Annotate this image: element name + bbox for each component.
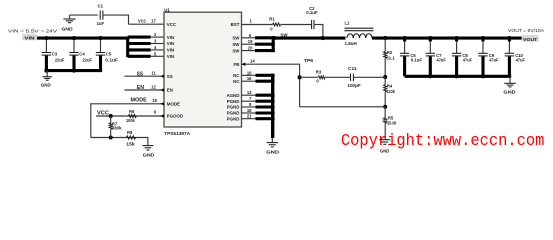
ground [266,138,279,155]
wire [384,58,386,77]
wire SW bus [273,37,345,40]
resistor R8 [126,130,135,146]
pin name PGOOD [167,114,183,119]
op-amp U1 IC body TPS51397A [164,7,242,136]
svg-text:R6: R6 [129,109,135,114]
pin name PGND [227,116,240,121]
wire VOUT bus [372,37,522,40]
svg-text:0.1uF: 0.1uF [105,58,118,63]
ground [41,71,52,88]
pin name VIN [167,48,174,53]
svg-text:VCC: VCC [138,19,147,24]
svg-text:15k: 15k [126,141,135,146]
wire pin 13 stub [256,94,275,97]
svg-text:47uF: 47uF [437,58,447,63]
pin number 1 [250,19,253,24]
wire [325,76,350,78]
svg-text:10: 10 [247,70,252,75]
svg-text:VIN: VIN [167,35,174,40]
pin name VIN [167,41,174,46]
wire [69,15,71,19]
pin name NC [233,73,240,78]
svg-text:U1: U1 [164,7,170,12]
pin number 12 [151,84,156,89]
svg-text:13: 13 [247,90,252,95]
pin name VCC [167,22,177,27]
svg-text:R8: R8 [127,130,133,135]
svg-text:R3: R3 [316,70,322,75]
pin arrow FB [242,63,246,66]
svg-text:Copyright:www.eccn.com: Copyright:www.eccn.com [341,131,545,150]
wire [147,137,149,146]
wire pin 13 [242,94,257,96]
pin number 5 [154,51,157,56]
svg-text:GND: GND [503,90,515,95]
wire SW stubs [255,38,275,51]
svg-text:0.1uF: 0.1uF [306,10,318,15]
svg-text:SW: SW [280,32,288,37]
svg-text:MODE: MODE [131,98,148,104]
svg-text:21: 21 [247,114,252,119]
wire pin3 stub [128,42,151,45]
pin number 16 [247,76,252,81]
resistor R6 [126,109,136,123]
svg-text:11: 11 [151,71,156,76]
svg-text:VIN: VIN [24,35,35,41]
pin number 17 [151,19,156,24]
ground [142,146,154,158]
pin name AGND [226,93,239,98]
wire [281,24,311,26]
svg-text:TPS51397A: TPS51397A [164,131,190,136]
svg-text:18: 18 [247,108,252,113]
svg-text:BST: BST [231,22,240,27]
net label VCC [97,111,109,117]
pin arrow [160,102,164,105]
pin arrow [160,114,164,117]
node VIN [22,34,37,42]
svg-text:C1: C1 [98,3,104,8]
node TP6 [304,58,314,63]
wire output gnd bar [405,75,512,78]
svg-text:15.0k: 15.0k [387,121,397,126]
svg-text:PGND: PGND [227,105,240,110]
svg-text:MODE: MODE [167,102,180,107]
svg-text:R4: R4 [387,84,393,89]
pin number 15 [152,98,157,103]
svg-text:VCC: VCC [167,22,177,27]
junction [109,114,113,118]
svg-text:VOUT = 5V/10A: VOUT = 5V/10A [508,28,545,33]
pin name SW [232,36,240,41]
svg-text:NC: NC [233,79,240,84]
junction [109,135,113,139]
wire FB [242,64,386,107]
resistor R2 [384,50,396,61]
svg-text:TP6: TP6 [304,58,314,63]
junction [455,74,459,78]
svg-text:PGOOD: PGOOD [167,114,183,119]
pin name NC [233,79,240,84]
wire [384,38,386,51]
pin number 6 [249,33,252,38]
wire MODE [91,103,164,137]
wire pin 8 stub [256,105,275,108]
wire BST [242,24,273,26]
ground [63,19,75,23]
net label SW [280,32,288,37]
pin number 10 [247,70,252,75]
net label SS [137,71,143,77]
net label VCC [138,19,147,24]
svg-text:22uF: 22uF [83,58,93,63]
svg-text:47uF: 47uF [489,58,499,63]
svg-text:VOUT: VOUT [523,37,537,43]
pin name SW [232,42,240,47]
svg-text:PGND: PGND [227,116,240,121]
wire pin 7 stub [256,100,275,103]
net label MODE [131,98,148,104]
junction [272,36,276,40]
wire pin 7 [242,100,257,102]
svg-text:SS: SS [167,74,173,79]
junction [72,69,76,73]
text VOUT = 5V/10A [508,28,545,33]
svg-text:AGND: AGND [226,93,239,98]
svg-text:GND: GND [62,27,73,32]
svg-text:PGND: PGND [227,99,240,104]
svg-text:1uF: 1uF [97,21,105,26]
capacitor C1 [97,3,105,26]
svg-text:22uF: 22uF [55,58,65,63]
wire [70,14,98,16]
ground [503,76,515,94]
text GND [62,27,73,32]
wire pin 10 stub [256,74,275,77]
wire PGND bar [271,74,274,138]
junction [383,36,387,40]
wire gnd bar [45,69,102,72]
svg-text:EN: EN [137,85,144,91]
pin number 4 [154,45,157,50]
svg-text:1.8uH: 1.8uH [345,41,357,46]
svg-text:0.1uF: 0.1uF [411,58,423,63]
resistor R3 [316,70,325,84]
junction node FB-RC [383,75,387,79]
wire pin 16 [242,80,257,82]
pin arrow [160,88,164,91]
pin number 14 [250,58,255,63]
svg-text:14: 14 [250,58,255,63]
svg-text:C4: C4 [79,51,85,56]
svg-text:PGND: PGND [227,111,240,116]
junction [298,75,302,79]
capacitor C5 [96,40,119,71]
resistor R5 [384,107,397,140]
svg-text:VIN: VIN [167,41,174,46]
pin name PGND [227,99,240,104]
wire pin 21 [242,118,257,120]
pin number 19 [248,39,253,44]
capacitor C4 [69,40,92,71]
capacitor C7 [426,36,447,76]
svg-text:L1: L1 [345,21,351,26]
wire pin 18 stub [256,111,275,114]
wire pin 16 stub [256,80,275,83]
pin number 7 [249,96,252,101]
pin number 13 [247,90,252,95]
svg-text:C11: C11 [348,66,357,71]
resistor R7 [109,116,122,138]
pin name SW [232,48,240,53]
wire VIN bus vertical [126,37,129,58]
svg-text:FB: FB [234,62,240,67]
wire [354,76,385,78]
wire pin 8 [242,106,257,108]
svg-text:330k: 330k [112,125,123,130]
wire [96,115,164,117]
svg-text:GND: GND [143,152,155,157]
junction [321,36,325,40]
svg-text:16: 16 [247,76,252,81]
junction [44,36,48,40]
node VOUT [522,35,539,43]
capacitor C3 [42,40,65,71]
resistor R4 [384,77,396,107]
svg-text:SS: SS [137,71,143,77]
pin name BST [231,22,240,27]
resistor R1 [269,17,280,32]
net label EN [137,85,144,91]
svg-text:47uF: 47uF [516,58,526,63]
wire [315,24,323,38]
junction [72,36,76,40]
svg-text:SW: SW [232,42,240,47]
junction [44,69,48,73]
svg-text:NC: NC [233,73,240,78]
svg-text:VIN: VIN [167,48,174,53]
wire VIN bus [37,37,129,40]
wire [242,38,257,51]
svg-text:VIN = 5.5V ~ 24V: VIN = 5.5V ~ 24V [8,28,58,33]
wire pin 18 [242,112,257,114]
pin name PGND [227,111,240,116]
pin name SS [167,74,173,79]
pin number 3 [154,39,157,44]
wire EN [124,89,164,91]
text VIN = 5.5V ~ 24V [8,28,58,33]
svg-text:C3: C3 [52,51,58,56]
capacitor C8 [452,36,473,76]
svg-text:12: 12 [151,84,156,89]
svg-text:GND: GND [41,83,51,88]
pin name VIN [167,35,174,40]
wire pin4 stub [128,48,151,51]
wire [103,15,164,25]
junction [428,74,432,78]
svg-text:51.1: 51.1 [386,56,395,61]
pin number 8 [249,102,252,107]
wire SS [124,75,164,77]
svg-text:100pF: 100pF [347,83,361,88]
svg-text:SW: SW [232,36,240,41]
ground [379,140,390,154]
svg-text:C5: C5 [106,51,112,56]
svg-text:100k: 100k [126,118,135,123]
wire pin2 stub [128,36,151,39]
pin number 21 [247,114,252,119]
pin name FB [234,62,240,67]
pin name EN [167,88,173,93]
wire [300,76,318,78]
svg-text:17: 17 [151,19,156,24]
svg-text:R2: R2 [387,50,393,55]
svg-text:VIN: VIN [167,54,174,59]
pin name PGND [227,105,240,110]
capacitor C6 [400,36,423,76]
wire pin 21 stub [256,117,275,120]
svg-text:19: 19 [248,39,253,44]
pin arrow [160,75,164,78]
inductor L1 [345,21,374,47]
pin number 11 [151,71,156,76]
svg-text:110k: 110k [386,89,395,94]
pin name MODE [167,102,180,107]
capacitor C11 [347,66,361,88]
wire SW bar [272,36,275,52]
capacitor C10 [505,36,526,76]
text watermark Copyright:www.eccn.com [341,131,545,150]
svg-text:R1: R1 [269,17,275,22]
svg-text:SW: SW [232,48,240,53]
pin name VIN [167,54,174,59]
pin number 9 [154,110,157,115]
svg-text:GND: GND [266,150,279,155]
svg-text:47uF: 47uF [463,58,473,63]
pin number 18 [247,108,252,113]
wire [150,37,164,56]
junction [481,74,485,78]
pin number 20 [248,46,253,51]
svg-text:GND: GND [380,148,390,153]
pin number 2 [154,32,157,37]
capacitor C2 [306,6,318,29]
svg-text:20: 20 [248,46,253,51]
svg-text:EN: EN [167,88,173,93]
junction [98,36,102,40]
capacitor C9 [478,36,499,76]
svg-text:15: 15 [152,98,157,103]
junction [383,105,387,109]
wire pin 10 [242,74,257,76]
wire pin5 stub [128,55,151,58]
